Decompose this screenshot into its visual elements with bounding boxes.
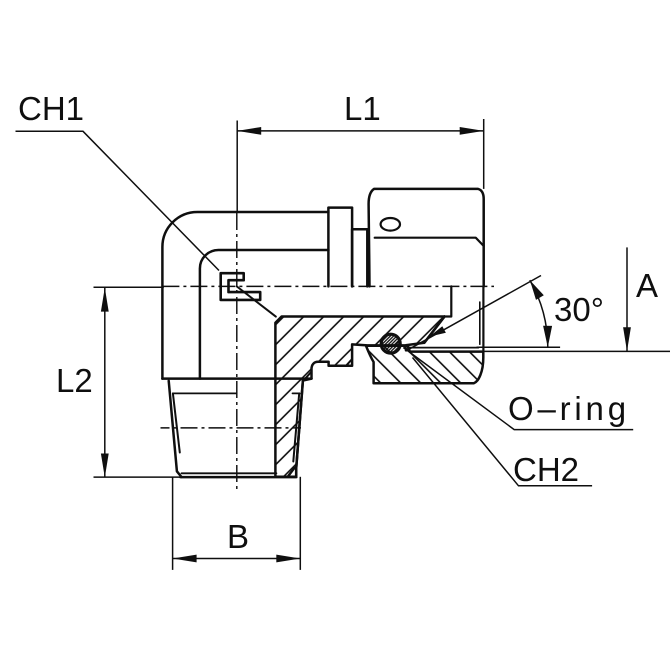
svg-text:30°: 30° xyxy=(554,291,604,328)
nut seat cone edge xyxy=(424,317,444,343)
dimension A baseline xyxy=(468,350,670,352)
dimension L1 ext left xyxy=(236,121,238,213)
centerlines xyxy=(161,213,495,490)
L2 bottom arrow xyxy=(101,454,109,478)
collar on body xyxy=(328,208,352,287)
vertical centerline of leg xyxy=(236,213,238,490)
elbow body inner profile xyxy=(200,250,329,379)
svg-text:CH2: CH2 xyxy=(513,451,579,488)
30deg arc top arrow xyxy=(530,280,544,300)
30deg line arrow xyxy=(429,326,446,336)
thread gauge line left xyxy=(174,392,237,394)
dimension A line xyxy=(626,247,628,351)
nut hex edge line xyxy=(375,238,484,246)
CH2 leader xyxy=(413,358,593,486)
nut marking ellipse xyxy=(381,218,400,231)
svg-text:B: B xyxy=(227,518,249,555)
body section hatched (lower right, cut view) xyxy=(275,317,444,477)
dimension B line xyxy=(173,558,301,560)
o-ring xyxy=(381,334,400,353)
body block bottom edge xyxy=(162,377,311,380)
svg-text:CH1: CH1 xyxy=(18,90,84,127)
L1 left arrow xyxy=(237,127,261,135)
A bottom arrow xyxy=(623,327,631,351)
NPT thread left crest xyxy=(169,381,182,477)
o-ring groove tick xyxy=(405,345,407,350)
elbow body outer profile xyxy=(162,212,328,379)
dimension B ext right xyxy=(299,477,301,570)
30deg arc xyxy=(530,280,548,347)
svg-text:L2: L2 xyxy=(56,362,93,399)
svg-text:O–ring: O–ring xyxy=(508,390,630,427)
washer ring xyxy=(352,229,367,286)
30deg arc bottom arrow xyxy=(543,326,552,348)
dimension L1 line xyxy=(237,130,484,132)
30deg cone line xyxy=(406,276,542,352)
drill cone edge at elbow corner xyxy=(237,287,276,317)
B left arrow xyxy=(173,555,197,563)
nut inner shoulder xyxy=(445,286,452,316)
nut female thread line xyxy=(408,347,478,349)
dimension L2 ext top xyxy=(94,286,164,288)
L1 right arrow xyxy=(460,127,484,135)
body chamfer tick at step xyxy=(346,359,352,366)
thread bottom face xyxy=(181,476,297,479)
CH1 flats marker xyxy=(221,273,261,300)
O-ring leader xyxy=(403,348,633,430)
NPT thread left root xyxy=(173,393,180,452)
nut inner chamfer line lower right xyxy=(479,302,481,344)
nut outer profile upper half xyxy=(369,189,484,287)
NPT thread right root xyxy=(293,393,299,461)
leg cross centerline xyxy=(161,427,302,429)
NPT thread right crest xyxy=(288,381,303,477)
nut right edge lower half xyxy=(482,286,484,352)
body chamfer tick at block corner xyxy=(305,372,311,379)
horizontal centerline of port xyxy=(162,285,494,287)
dimension L2 line xyxy=(104,288,106,478)
nut section hatched (lower, cut view) xyxy=(366,346,483,383)
L2 top arrow xyxy=(101,288,109,312)
dimension B ext left xyxy=(172,477,174,570)
CH1 leader xyxy=(16,131,220,270)
B right arrow xyxy=(276,555,300,563)
arrowheads xyxy=(101,127,631,562)
thread gauge line right xyxy=(293,392,300,394)
svg-text:A: A xyxy=(636,267,658,304)
30deg baseline xyxy=(477,346,561,348)
dimension L1 ext right xyxy=(483,119,485,189)
svg-text:L1: L1 xyxy=(344,90,381,127)
dimension L2 ext bottom xyxy=(94,476,181,478)
thread bottom inner line xyxy=(182,472,277,474)
